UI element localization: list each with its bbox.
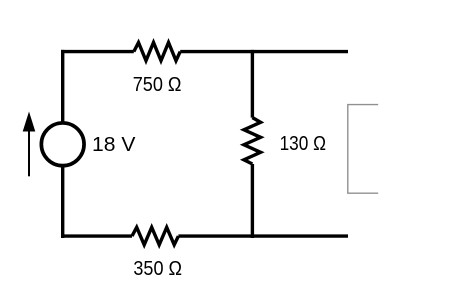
svg-text:750 Ω: 750 Ω (133, 74, 182, 96)
voltage source VS circle (41, 123, 84, 166)
svg-text:130 Ω: 130 Ω (280, 133, 326, 155)
output terminal bracket (348, 105, 378, 194)
svg-text:18 V: 18 V (92, 134, 136, 156)
resistor R3 350 ohm zigzag (132, 227, 178, 245)
wire: top-right horizontal (180, 50, 348, 53)
resistor R1 750 ohm zigzag (134, 43, 180, 61)
wire: top-left horizontal (61, 50, 134, 53)
svg-text:350 Ω: 350 Ω (133, 258, 182, 280)
wire: bottom-left horizontal (61, 234, 132, 237)
wire: left vertical upper (top wire to source) (61, 50, 64, 123)
current direction arrow (23, 112, 36, 177)
wire: middle branch upper (top wire to R2) (251, 50, 254, 118)
resistor R2 130 ohm vertical zigzag (244, 118, 261, 164)
wire: middle branch lower (R2 to bottom wire) (251, 164, 254, 238)
wire: left vertical lower (source to bottom wire) (61, 165, 64, 238)
wire: bottom-right horizontal (178, 234, 348, 237)
